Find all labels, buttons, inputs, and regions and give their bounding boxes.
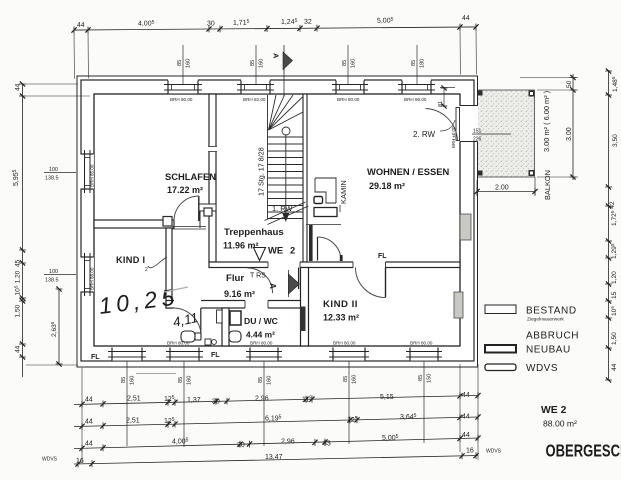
svg-text:2,51: 2,51 <box>127 396 141 403</box>
svg-text:81: 81 <box>438 101 444 107</box>
bath fixture small rect on divider <box>217 310 223 323</box>
dim 81 at wall corner <box>438 85 455 108</box>
svg-text:5,15: 5,15 <box>380 394 394 401</box>
balcony slab stippled <box>477 90 535 177</box>
entrance door opening <box>268 261 300 270</box>
svg-text:29.18 m²: 29.18 m² <box>369 181 405 191</box>
interior wall: Schlafen / Kind I divider <box>94 220 174 228</box>
inner wall face <box>94 94 460 346</box>
balcony corner post bottom-left <box>478 171 483 176</box>
svg-text:WDVS: WDVS <box>486 449 502 455</box>
svg-text:3.00: 3.00 <box>566 127 573 141</box>
svg-text:FL: FL <box>378 253 387 260</box>
section marker A top <box>272 45 293 96</box>
svg-text:BRH 86.00: BRH 86.00 <box>404 97 427 102</box>
svg-text:KIND II: KIND II <box>323 299 358 310</box>
svg-text:30: 30 <box>237 442 245 449</box>
interior wall: Treppenhaus right <box>303 94 307 262</box>
svg-text:Flur: Flur <box>226 273 244 284</box>
Kind II door opening <box>353 261 386 270</box>
balcony corner post bottom-right <box>529 170 535 176</box>
svg-text:138.5: 138.5 <box>45 278 59 284</box>
svg-text:WOHNEN / ESSEN: WOHNEN / ESSEN <box>367 166 450 177</box>
extension lines from chain to wall <box>73 33 75 79</box>
walking line circle <box>282 127 290 135</box>
svg-text:11.96 m²: 11.96 m² <box>223 241 259 251</box>
svg-text:2. RW: 2. RW <box>413 130 436 139</box>
Kamin small box <box>314 197 323 204</box>
svg-text:160: 160 <box>351 59 357 68</box>
svg-text:BRH ±0.00: BRH ±0.00 <box>451 126 456 148</box>
divider lower lip <box>172 226 206 228</box>
svg-text:44: 44 <box>462 15 470 22</box>
legend swatch Neubau <box>485 345 516 353</box>
interior wall: bath top (Flur south) <box>166 301 305 309</box>
svg-text:32: 32 <box>304 19 312 26</box>
svg-text:50: 50 <box>566 80 573 88</box>
svg-text:151: 151 <box>473 129 482 135</box>
stair cut lines <box>265 202 306 221</box>
interior wall: Kind II left <box>301 268 309 347</box>
svg-text:44: 44 <box>462 392 470 399</box>
du/wc shower tray <box>230 311 241 325</box>
legend swatch Bestand <box>485 305 516 314</box>
walking line arrow <box>282 213 289 222</box>
svg-text:OBERGESCHOSS: OBERGESCHOSS <box>546 442 621 461</box>
svg-text:Ziegelmauerwerk: Ziegelmauerwerk <box>527 317 564 323</box>
interior wall: Kind I right <box>166 228 172 308</box>
svg-text:30: 30 <box>207 20 215 27</box>
svg-text:160: 160 <box>130 376 136 385</box>
window W5 bottom (Kind I left) <box>108 347 146 361</box>
balcony corner post top-right <box>529 91 535 97</box>
outer wall face <box>81 80 474 361</box>
svg-text:1,50: 1,50 <box>611 332 618 345</box>
svg-text:BESTAND: BESTAND <box>526 306 577 317</box>
svg-text:3,50: 3,50 <box>612 134 619 147</box>
window W1 top (Schlafen) <box>164 77 202 102</box>
switch box on Treppenhaus wall <box>204 208 212 216</box>
walking line <box>285 135 287 214</box>
svg-text:SCHLAFEN: SCHLAFEN <box>165 171 216 182</box>
top window extension lines and sizes <box>183 45 417 84</box>
neubau dark patch on Kind II left wall <box>300 307 306 332</box>
du/wc door opening <box>245 300 268 310</box>
svg-text:DU / WC: DU / WC <box>244 316 278 326</box>
svg-text:16: 16 <box>76 458 84 465</box>
bottom dimension chain 1 <box>74 392 481 408</box>
svg-text:44: 44 <box>462 414 470 421</box>
svg-text:160: 160 <box>352 375 358 384</box>
dim 2.00 balcony <box>474 177 537 196</box>
Kind II door leaf and arc <box>356 268 386 298</box>
svg-text:Treppenhaus: Treppenhaus <box>224 227 284 238</box>
svg-text:A: A <box>268 283 277 289</box>
bottom window extension lines and sizes <box>127 361 424 447</box>
svg-text:88.00 m²: 88.00 m² <box>543 419 577 429</box>
section marker A bottom <box>268 270 300 297</box>
svg-text:ABBRUCH: ABBRUCH <box>526 331 579 342</box>
svg-text:BRH 80.00: BRH 80.00 <box>337 97 360 102</box>
bath door arc <box>173 308 201 336</box>
svg-text:100: 100 <box>49 269 58 275</box>
svg-text:BRH 80.00: BRH 80.00 <box>410 341 433 346</box>
left dimension chain <box>12 81 90 377</box>
svg-text:2,51: 2,51 <box>126 418 140 425</box>
window WA left wall (Schlafen) <box>78 150 95 193</box>
bottom dimension chain 3 <box>74 432 481 452</box>
svg-text:85: 85 <box>411 60 417 66</box>
svg-text:160: 160 <box>259 59 265 68</box>
svg-text:16: 16 <box>466 448 474 455</box>
bottom dimension chain 4 <box>42 448 502 468</box>
svg-text:BRH 80.00: BRH 80.00 <box>170 97 193 102</box>
divider jog piece right of Schlafen door <box>199 204 216 211</box>
svg-text:3.00 m² ( 6.00 m² ): 3.00 m² ( 6.00 m² ) <box>542 91 551 152</box>
svg-text:NEUBAU: NEUBAU <box>526 345 571 356</box>
right outer dimension chain <box>605 68 619 382</box>
svg-text:85: 85 <box>342 60 348 66</box>
interior wall: main horizontal wall (Flur/KindII north) <box>209 262 460 268</box>
window W8 bottom (Kind II left) <box>329 341 369 361</box>
svg-text:44: 44 <box>85 397 93 404</box>
svg-text:2: 2 <box>145 267 148 273</box>
extension lines building corners bottom <box>82 364 478 462</box>
balcony door leaf <box>456 108 460 141</box>
svg-text:2,96: 2,96 <box>281 439 295 446</box>
svg-text:WDVS: WDVS <box>526 363 558 374</box>
svg-text:KAMIN: KAMIN <box>339 180 348 204</box>
svg-text:13,47: 13,47 <box>265 454 283 461</box>
svg-text:45: 45 <box>15 259 22 267</box>
leader 2.RW to door <box>440 120 455 131</box>
svg-text:44: 44 <box>15 83 22 91</box>
svg-text:17 Stg. 17 8/28: 17 Stg. 17 8/28 <box>257 147 266 196</box>
legend swatch WDVS <box>485 364 516 371</box>
svg-text:17.22 m²: 17.22 m² <box>167 185 203 195</box>
bath fixture: toilet left bath <box>181 331 201 342</box>
svg-text:44: 44 <box>15 345 22 353</box>
svg-text:2.00: 2.00 <box>495 185 509 192</box>
svg-text:33: 33 <box>323 441 331 448</box>
du/wc basin bits <box>205 339 211 345</box>
balcony door size leader 151/226 <box>472 129 511 143</box>
left window size annotation upper <box>44 167 76 182</box>
svg-text:160: 160 <box>186 59 192 68</box>
Kamin large box <box>314 208 337 217</box>
balcony door swing arc <box>426 109 458 141</box>
stairs <box>265 95 309 225</box>
svg-text:44: 44 <box>77 22 85 29</box>
du/wc toilet <box>229 331 241 342</box>
svg-text:85: 85 <box>121 377 127 383</box>
svg-text:T RS: T RS <box>250 273 266 280</box>
svg-text:1,20: 1,20 <box>611 271 618 284</box>
svg-text:KIND I: KIND I <box>116 255 145 265</box>
window W4 top (Wohnen right) <box>398 77 435 102</box>
window W7 bottom (DU/WC) <box>246 341 282 361</box>
svg-text:1,20: 1,20 <box>15 270 22 283</box>
svg-text:4.44 m²: 4.44 m² <box>246 330 275 340</box>
top dimension chain <box>71 15 479 79</box>
window W6 bottom (Kind I right) <box>166 341 203 361</box>
svg-text:WDVS: WDVS <box>42 457 58 463</box>
svg-text:BRH 85.00: BRH 85.00 <box>90 164 95 187</box>
svg-text:100: 100 <box>49 167 58 173</box>
svg-text:85: 85 <box>250 60 256 66</box>
svg-text:1,50: 1,50 <box>15 304 22 317</box>
svg-text:160: 160 <box>267 376 273 385</box>
svg-text:226: 226 <box>473 137 482 143</box>
svg-text:44: 44 <box>611 363 618 371</box>
svg-text:A: A <box>272 53 281 59</box>
Kamin duct outline <box>315 178 336 203</box>
svg-text:1. RW: 1. RW <box>272 204 292 213</box>
svg-text:BRH 80.00: BRH 80.00 <box>250 341 273 346</box>
svg-text:138.5: 138.5 <box>45 176 59 182</box>
svg-text:85: 85 <box>178 377 184 383</box>
svg-text:WE 2: WE 2 <box>541 405 567 416</box>
grey wall patch right wall upper (radiator) <box>460 214 471 240</box>
balcony corner post top-left <box>478 91 483 96</box>
svg-text:180: 180 <box>420 59 426 68</box>
left window size annotation lower <box>44 269 76 284</box>
svg-text:85: 85 <box>343 376 349 382</box>
svg-text:44: 44 <box>85 419 93 426</box>
svg-text:15: 15 <box>611 291 618 299</box>
svg-text:BALKON: BALKON <box>543 170 552 200</box>
outer wall WDVS outline <box>77 76 478 367</box>
svg-text:44: 44 <box>462 432 470 439</box>
entrance door arc (T RS) <box>248 268 299 294</box>
interior wall: bath / du-wc divider <box>222 308 229 346</box>
bath door opening <box>174 300 201 310</box>
svg-text:85: 85 <box>418 375 424 381</box>
svg-text:150: 150 <box>427 374 433 383</box>
svg-text:BRH 88.00: BRH 88.00 <box>90 267 95 290</box>
Wohnen door leaf and arc <box>318 237 343 261</box>
svg-text:1,37: 1,37 <box>187 397 201 404</box>
bottom dimension chain 2 <box>74 413 481 430</box>
window W9 bottom (Kind II right) <box>406 341 442 361</box>
grey wall patch right wall lower <box>454 292 463 318</box>
right inner dimension chain (balcony) <box>520 74 578 180</box>
svg-text:85: 85 <box>177 60 183 66</box>
svg-text:30: 30 <box>212 399 220 406</box>
window W3 top (Wohnen left) <box>332 77 368 102</box>
svg-text:FL: FL <box>91 354 100 361</box>
interior wall: Treppenhaus left <box>209 94 216 262</box>
svg-text:12.33 m²: 12.33 m² <box>323 313 359 323</box>
svg-text:2: 2 <box>290 245 295 256</box>
neubau dark wall bar right of Treppenhaus <box>309 225 313 261</box>
svg-text:85: 85 <box>258 377 264 383</box>
balcony door opening right wall <box>426 106 479 149</box>
window WB left wall (Kind I) <box>78 253 95 296</box>
thin line Wohnen boundary <box>306 224 341 226</box>
svg-text:FL: FL <box>211 352 220 359</box>
Schlafen door leaf and arc <box>174 196 199 221</box>
stair treads <box>268 136 304 138</box>
svg-text:BRH 80.00: BRH 80.00 <box>333 341 356 346</box>
svg-text:BRH 82.00: BRH 82.00 <box>243 97 266 102</box>
svg-text:9.16 m²: 9.16 m² <box>224 289 255 299</box>
window W2 top (Treppenhaus) <box>237 77 274 102</box>
svg-text:2,96: 2,96 <box>255 396 269 403</box>
wall notch on Treppenhaus left wall <box>208 146 217 152</box>
svg-text:44: 44 <box>85 441 93 448</box>
winder steps fan <box>269 95 277 130</box>
wall pillar at divider <box>163 217 172 227</box>
svg-text:160: 160 <box>187 376 193 385</box>
inner left dim 2,63 <box>50 286 62 366</box>
svg-text:WE: WE <box>268 245 283 256</box>
